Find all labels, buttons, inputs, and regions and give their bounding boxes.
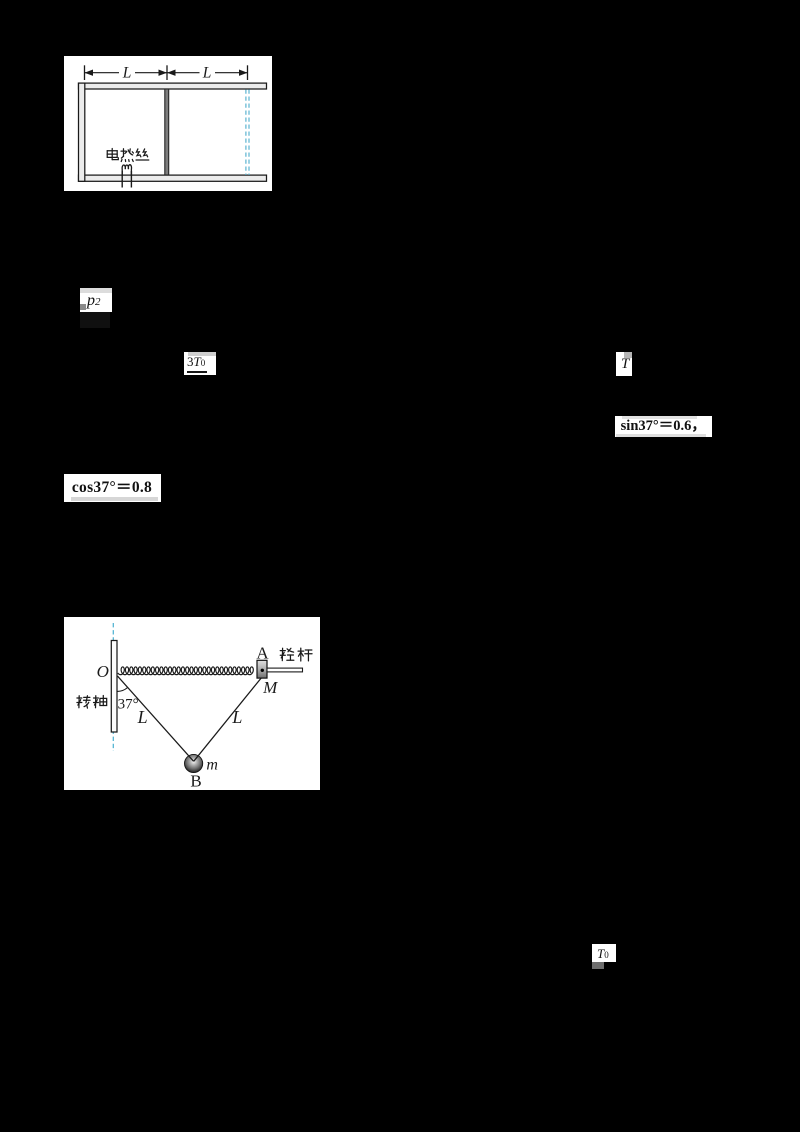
svg-text:L: L xyxy=(201,64,211,81)
svg-text:M: M xyxy=(262,677,278,696)
svg-text:37°: 37° xyxy=(118,696,139,712)
svg-text:m: m xyxy=(206,756,218,773)
svg-text:L: L xyxy=(121,64,131,81)
svg-text:L: L xyxy=(137,706,148,726)
svg-text:L: L xyxy=(231,706,242,726)
svg-text:B: B xyxy=(190,771,201,789)
svg-text:A: A xyxy=(256,643,269,662)
svg-text:O: O xyxy=(97,661,109,680)
